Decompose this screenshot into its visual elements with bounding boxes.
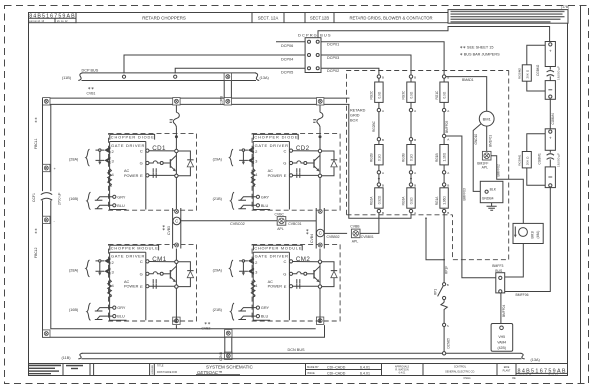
revision cell [29,365,61,375]
svg-text:GNDB4: GNDB4 [482,197,494,201]
svg-text:OSAG: OSAG [463,377,470,380]
svg-text:RGBM1: RGBM1 [518,154,522,165]
resistor RG1B 1.16ohm [440,145,448,165]
resistor RGBM2 20K [518,45,546,91]
svg-text:BMFF06: BMFF06 [516,293,529,297]
wire CM1 output stub to bus [175,325,177,329]
svg-text:C: C [175,219,178,224]
junction circle CVB4 bottom [318,243,322,247]
resistor RG3C 0.9ohm [407,82,415,102]
svg-text:6.4.01: 6.4.01 [360,371,370,375]
svg-text:(21B): (21B) [213,197,223,201]
svg-text:BMAD1: BMAD1 [462,78,474,82]
resistor RG1C 0.9ohm [440,82,448,102]
svg-text:CVB1: CVB1 [87,92,96,96]
junction square left bus - [43,216,50,223]
svg-text:RG2B: RG2B [370,153,374,162]
blower motor BM1 [479,111,494,126]
svg-text:ISSUE: ISSUE [307,371,315,375]
svg-text:DCP02: DCP02 [327,69,339,73]
svg-text:(16B): (16B) [69,197,79,201]
svg-text:∗∗: ∗∗ [34,117,38,123]
svg-text:(29A): (29A) [213,158,223,162]
svg-text:MADE BY: MADE BY [307,365,319,369]
jumper junction dot [410,178,412,180]
svg-text:BMFF04: BMFF04 [502,305,506,317]
terminal box VH5 VAM4 [491,324,513,352]
svg-text:RGBM2: RGBM2 [518,68,522,79]
svg-text:RG1B: RG1B [435,153,439,162]
svg-text:RG3A: RG3A [402,196,406,206]
svg-text:A: A [447,109,449,113]
wire BMFF05 [443,112,445,135]
svg-text:cont on sh. 13: cont on sh. 13 [29,20,45,23]
svg-text:RP1F: RP1F [445,266,449,274]
grid column 3: RG1C / RG1B / RG1A [435,75,449,215]
wire DCP01 [321,42,444,75]
terminal A [377,108,380,111]
svg-text:VH5: VH5 [498,335,505,339]
svg-text:CHOPPER MODULE: CHOPPER MODULE [111,246,158,251]
svg-text:RG2BC: RG2BC [372,120,376,132]
terminal A [377,171,380,174]
svg-text:APL: APL [352,240,359,244]
CVB1 top horizontal bus [43,86,350,105]
svg-text:RG2A: RG2A [370,196,374,206]
svg-text:0.9Ω: 0.9Ω [409,91,413,98]
svg-text:BLK: BLK [490,188,497,192]
junction square bottom bus corner [43,330,50,337]
wire CVBC01 [286,220,316,222]
svg-text:CVB4: CVB4 [310,234,314,243]
svg-text:CGBM2: CGBM2 [536,64,540,76]
svg-text:A: A [447,138,449,142]
svg-text:DCP05: DCP05 [281,71,293,75]
capacitor CGBM1 18000uF [537,129,560,188]
resistor RG3B 0.9ohm [407,145,415,165]
svg-text:+: + [549,49,552,54]
DCN BUS [62,348,541,362]
resistor RG3A 0.9ohm [407,188,415,208]
wire GND10 [473,124,485,192]
junction square left bus + [43,164,50,171]
svg-text:B: B [382,138,384,142]
junction square CJNB top [225,330,232,337]
svg-text:BM1I: BM1I [531,231,535,239]
junction circle CVB4 top [318,209,322,213]
chopper module CM1 [69,244,197,322]
svg-text:CD1: CD1 [152,145,166,152]
svg-text:18,000 μF: 18,000 μF [557,66,561,80]
svg-text:GET5OAC™: GET5OAC™ [197,370,222,375]
junction square CJNB bottom [225,352,232,359]
svg-text:B: B [382,211,384,215]
wire DCP05 [175,68,305,73]
wire CVBC02 [181,220,277,222]
svg-text:GENERAL ELECTRIC CO.: GENERAL ELECTRIC CO. [445,371,475,374]
svg-text:BM1: BM1 [483,116,492,121]
svg-text:CONTROL: CONTROL [454,366,467,369]
svg-text:BMFF02: BMFF02 [497,164,501,176]
svg-text:sh. no. 12: sh. no. 12 [57,20,68,23]
wire BMAD1 to blower motor [446,77,487,112]
proprietary note box [448,10,568,24]
svg-text:CCF1: CCF1 [32,193,36,202]
svg-text:B: B [447,75,449,79]
svg-text:RP1: RP1 [433,289,437,295]
ground block BLK GNDB4 [480,181,503,202]
junction square CVB1 / CD2 [317,98,324,105]
left DC link bus (FBCL) with L corner to bottom [43,98,325,337]
svg-text:B: B [414,75,416,79]
svg-text:1.16Ω: 1.16Ω [443,152,447,161]
svg-text:0.9Ω: 0.9Ω [443,91,447,98]
svg-text:CD2: CD2 [296,145,310,152]
chopper diode CD2 [213,134,341,212]
wire CVB1 to CD1 collector with flex squiggle [170,105,180,149]
junction square CVB1 left corner [43,98,50,105]
svg-text:CHOPPER DIODE: CHOPPER DIODE [254,135,297,140]
svg-text:(42B): (42B) [498,346,506,350]
svg-text:B: B [382,75,384,79]
wire DCP03 [321,55,411,75]
resistor RG1A 1.06ohm [440,188,448,208]
capacitor CGBM2 18000uF [536,42,561,100]
wire CVBB02 [324,232,347,234]
svg-text:RG3C: RG3C [402,90,406,100]
svg-text:SECT. 12A: SECT. 12A [258,16,279,21]
svg-text:DCN05: DCN05 [446,338,450,349]
junction square CM2 output / bus right end [316,317,323,324]
svg-text:BOX: BOX [350,119,358,123]
wire CGBM1 to BMFF06 [505,188,551,292]
svg-text:∗ BUS BAR JUMPERS: ∗ BUS BAR JUMPERS [460,53,501,57]
resistor RG2A 0.92ohm [375,188,383,208]
terminal B top of RG2C [377,75,380,78]
RETARD GRID BOX dashed enclosure [347,71,509,215]
jumper junction dot [378,178,380,180]
svg-text:APL: APL [482,165,489,169]
ground symbol [487,203,497,211]
svg-text:CVBB01: CVBB01 [361,235,374,239]
svg-text:(13A): (13A) [260,76,270,80]
right apron fold line [580,6,582,384]
svg-text:APL: APL [277,227,284,231]
svg-text:B: B [447,211,449,215]
svg-text:1.06Ω: 1.06Ω [443,196,447,205]
svg-text:(13A): (13A) [531,358,541,362]
resistor RG2B 0.9ohm [375,145,383,165]
svg-text:6.4.01: 6.4.01 [399,371,406,374]
svg-text:FBCL1: FBCL1 [34,138,38,149]
svg-text:RETARD CHOPPERS: RETARD CHOPPERS [142,16,186,21]
CVB3 current sensor bus between CD1 and CM1 [162,208,181,249]
wire BMFF04 [500,293,502,326]
svg-text:RETARD: RETARD [350,109,366,113]
svg-text:RG3B: RG3B [402,153,406,162]
svg-text:RG1A: RG1A [435,196,439,206]
wire BM1I to BMFF3 bus [505,244,524,278]
svg-text:DCP06: DCP06 [281,44,293,48]
svg-text:∗∗ SEE SHEET 15: ∗∗ SEE SHEET 15 [460,46,494,50]
svg-text:(28A): (28A) [69,158,79,162]
svg-text:CHOPPER DIODE: CHOPPER DIODE [111,135,154,140]
blower motor dashed enclosure [453,71,509,260]
svg-text:A: A [382,171,384,175]
CJNB vertical bus [219,337,232,361]
svg-text:0.9Ω: 0.9Ω [409,197,413,204]
svg-text:CJPB: CJPB [220,95,224,104]
terminal B bottom [377,209,380,212]
svg-text:SCB0888: SCB0888 [152,364,154,374]
bottom title block strip [29,364,569,381]
svg-text:RE: RE [512,377,516,380]
svg-text:CVB2: CVB2 [202,326,211,330]
capacitor CCF1 in left bus [32,193,62,205]
svg-text:BUS: BUS [495,269,503,273]
svg-text:CM2: CM2 [296,256,310,263]
svg-text:20K Ω: 20K Ω [525,156,529,165]
svg-text:(29A): (29A) [213,269,223,273]
svg-text:0.92Ω: 0.92Ω [377,195,381,204]
wire BMFF03 to BMFF3 bus [446,136,496,278]
svg-text:∗: ∗ [306,231,309,236]
svg-text:RG1C: RG1C [435,90,439,100]
junction square CVB1 / CJPB [224,98,231,105]
wire CVB1 to CD2 collector with flex squiggle [313,105,323,149]
svg-text:0.9Ω: 0.9Ω [377,154,381,161]
svg-text:∗: ∗ [162,227,165,232]
svg-text:CVBC01: CVBC01 [288,222,301,226]
DCP BUS [62,69,270,81]
wire CGBM4 between capacitor banks [549,99,551,129]
svg-text:18,000 μF: 18,000 μF [557,153,561,167]
svg-text:CVBC: CVBC [275,212,285,216]
svg-text:BMFF03: BMFF03 [462,188,466,200]
svg-text:CVBB: CVBB [350,225,360,229]
svg-text:DCP03: DCP03 [327,56,339,60]
grid column 2: RG3C / RG3B / RG3A [402,75,416,215]
svg-text:A: A [382,109,384,113]
header drawing-number box [28,13,76,23]
junction square CVB1 / CD1 [173,98,180,105]
svg-text:BMFF05: BMFF05 [445,121,449,133]
svg-text:(16B): (16B) [69,308,79,312]
svg-text:A: A [414,171,416,175]
svg-text:RETARD GRIDS, BLOWER & CONTACT: RETARD GRIDS, BLOWER & CONTACTOR [349,16,432,21]
CJPB vertical bus [220,81,232,105]
svg-text:(11B): (11B) [62,356,72,360]
connector CVBB APL [350,225,374,244]
wire CVB4 to CM2 collector [319,249,321,261]
svg-text:SYSTEM SCHEMATIC: SYSTEM SCHEMATIC [206,365,254,370]
svg-text:A: A [447,171,449,175]
svg-text:VAM4: VAM4 [497,340,506,344]
svg-text:∗∗: ∗∗ [34,228,38,234]
resistor RGBM1 20K [518,134,546,185]
svg-text:GND10: GND10 [474,134,478,145]
wire DCP04 [124,55,305,73]
terminal B top of RG2A [377,183,380,186]
svg-text:CM1: CM1 [152,256,166,263]
svg-text:B: B [447,283,449,287]
svg-text:SECT.12B: SECT.12B [310,16,330,21]
junction square CM1 output to bottom bus [173,317,180,324]
terminal box BMFF3 BUS [492,264,504,293]
junction square DCP bus / CJPB [224,73,231,80]
svg-text:CDI–CADD: CDI–CADD [327,365,346,369]
svg-text:+: + [549,136,552,141]
svg-text:B: B [414,138,416,142]
svg-text:FIRST MADE FOR: FIRST MADE FOR [157,371,177,374]
resistor RG2C 0.9ohm [375,82,383,102]
traced cell [66,365,83,367]
svg-text:CHOPPER MODULE: CHOPPER MODULE [254,246,301,251]
svg-text:(21B): (21B) [213,308,223,312]
svg-text:B: B [382,183,384,187]
wire DCP06 [276,41,305,43]
svg-text:84B516759AB: 84B516759AB [29,14,75,20]
wire CVB3 to CM1 collector [175,249,177,261]
wire BM1F01 [486,126,488,151]
svg-text:RG2C: RG2C [370,90,374,100]
svg-text:(17B): (17B) [561,5,569,9]
CVB4 current sensor bus between CD2 and CM2 [306,208,325,249]
svg-text:A: A [414,109,416,113]
svg-text:BMFF3: BMFF3 [492,264,503,268]
svg-text:CDI–CADD: CDI–CADD [327,371,346,375]
header section bar [76,12,448,22]
svg-text:TITLE: TITLE [157,365,164,368]
connector BM1FF APL [477,151,491,169]
svg-text:2700 uF: 2700 uF [58,193,62,205]
svg-text:6.4.01: 6.4.01 [360,365,370,369]
svg-text:DCP BUS: DCP BUS [82,69,99,73]
svg-text:cont on sh. 13: cont on sh. 13 [518,373,533,376]
svg-text:(11B): (11B) [62,76,72,80]
svg-text:FBCL2: FBCL2 [34,247,38,258]
wire RG2BC [378,112,380,138]
svg-text:GRID: GRID [350,114,360,118]
svg-text:∗∗: ∗∗ [204,321,211,326]
svg-text:DCP04: DCP04 [281,57,293,61]
svg-text:A: A [414,211,416,215]
svg-text:CGBM4: CGBM4 [551,113,555,125]
svg-text:PLANT: PLANT [503,369,511,372]
svg-text:CGBM1: CGBM1 [537,153,541,165]
svg-text:B: B [414,183,416,187]
svg-text:0.9Ω: 0.9Ω [377,91,381,98]
wire DCP02 [321,68,379,75]
junction circle CVB3 bottom [175,243,179,247]
svg-text:CVBC02: CVBC02 [230,222,245,226]
svg-text:CJNB: CJNB [219,351,223,361]
switch RP1 and wire RP1F [433,213,450,355]
svg-text:(48A): (48A) [536,231,540,239]
svg-text:0.9Ω: 0.9Ω [409,154,413,161]
svg-text:∗∗: ∗∗ [88,86,95,91]
grid column 1: RG2C / RG2B / RG2A [370,75,384,215]
wire CVBB01 to RG2A [360,213,379,234]
chopper diode CD1 [69,134,197,212]
svg-text:CVB3: CVB3 [167,226,171,235]
wire DCPRG bus to CGBM2 (top right feeder) [318,27,550,42]
DCPRG BUS terminal box [298,32,331,72]
svg-text:DCN BUS: DCN BUS [288,348,306,352]
terminal B top of RG2B [377,138,380,141]
svg-text:20K Ω: 20K Ω [525,69,529,78]
svg-text:DCPRG BUS: DCPRG BUS [298,32,331,37]
junction circle CVB3 top [175,209,179,213]
svg-text:BM1F01: BM1F01 [488,135,492,147]
svg-text:CVBB02: CVBB02 [327,235,340,239]
wire CVB1 bus drop to RG3A terminal [349,104,411,218]
svg-text:sh. no. 12: sh. no. 12 [548,374,558,376]
svg-text:S: S [447,324,449,328]
wire BMFF02 to BM1I [491,156,523,224]
wire branch to RP1 path [426,218,444,259]
svg-text:DCP01: DCP01 [327,43,339,47]
connector CVBC APL [275,212,302,231]
svg-text:B: B [447,183,449,187]
chopper module CM2 [213,244,341,322]
svg-text:(28A): (28A) [69,269,79,273]
current sensor BM1I [513,223,543,243]
svg-text:C: C [319,231,322,236]
